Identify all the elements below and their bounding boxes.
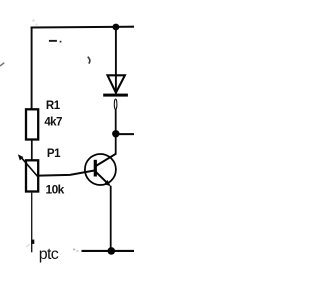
faint marks left of bottom rail: [73, 249, 78, 252]
svg-text:P1: P1: [47, 148, 61, 160]
svg-text:4k7: 4k7: [44, 116, 62, 128]
smudge artifact top: [32, 19, 38, 26]
resistor R1: [26, 109, 38, 139]
node top junction: [113, 24, 120, 31]
wire rail to collector: [115, 137, 117, 155]
node bottom junction: [108, 247, 116, 255]
wire below P1: [31, 193, 33, 253]
faint diagonal artifact above ptc: [26, 244, 29, 247]
node mid junction: [112, 130, 119, 137]
wire bottom rail: [82, 250, 135, 252]
label ptc: [39, 246, 59, 263]
diode D1: [103, 75, 128, 96]
diode lead double-line artifact: [114, 99, 117, 109]
wire emitter vertical: [110, 186, 112, 251]
potentiometer P1 wiper arrow: [18, 154, 38, 176]
blob on wire below P1: [32, 240, 35, 244]
wire R1 to P1: [31, 140, 33, 159]
wire wiper to base: [39, 170, 95, 175]
label 10k: [46, 182, 65, 196]
dash-dot artifact: [49, 40, 62, 43]
wire right rail mid: [115, 109, 117, 131]
transistor Q1: [85, 154, 116, 187]
wire mid to right edge: [116, 133, 134, 135]
label P1: [47, 148, 61, 160]
wire left vertical: [31, 27, 33, 110]
potentiometer P1: [26, 160, 38, 191]
wire right rail upper: [115, 27, 117, 94]
svg-text:10k: 10k: [46, 182, 65, 196]
left edge tick artifact: [0, 63, 4, 66]
svg-text:R1: R1: [46, 100, 61, 112]
svg-text:ptc: ptc: [39, 246, 59, 263]
label R1: [46, 100, 61, 112]
label 4k7: [44, 116, 62, 128]
wire top rail: [31, 26, 134, 29]
bracket artifact: [88, 57, 90, 64]
